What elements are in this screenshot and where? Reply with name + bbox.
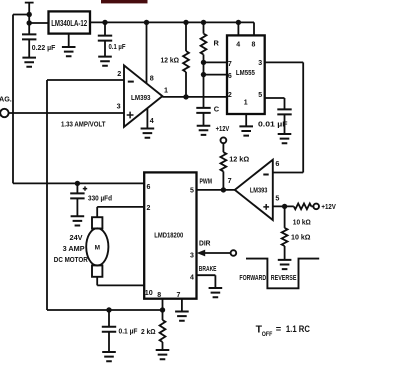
- resistor 10k to +12V: [294, 204, 312, 210]
- svg-text:0.1 µF: 0.1 µF: [119, 328, 139, 335]
- svg-text:3: 3: [117, 102, 121, 111]
- svg-text:2: 2: [228, 92, 232, 99]
- svg-text:1.1 RC: 1.1 RC: [286, 324, 310, 334]
- svg-text:4: 4: [150, 116, 154, 125]
- svg-text:2: 2: [147, 205, 151, 212]
- svg-text:2 kΩ: 2 kΩ: [141, 329, 156, 336]
- svg-text:BRAKE: BRAKE: [199, 264, 217, 273]
- svg-text:1.33 AMP/VOLT: 1.33 AMP/VOLT: [61, 119, 106, 128]
- wire motor to LMD pin 10: [97, 277, 144, 286]
- svg-text:8: 8: [252, 42, 256, 49]
- wire 555 pin 5 to bypass cap: [265, 98, 285, 109]
- wire DIR input with arrow: [203, 252, 231, 254]
- svg-text:330 µFd: 330 µFd: [88, 195, 112, 202]
- wire 555 pin 3 output loop to comparator pin 6: [265, 62, 303, 172]
- svg-text:LM393: LM393: [131, 95, 151, 102]
- capacitor 0.1uF rail bypass: [104, 22, 106, 35]
- wire comparator output to LMD pin 5: [197, 189, 235, 191]
- wire +24V terminal down to input node: [28, 3, 30, 35]
- node feedback at 0.1uF: [106, 307, 111, 312]
- wire to 555 pin 6: [204, 74, 228, 76]
- svg-text:1: 1: [164, 86, 168, 95]
- wire LM393 pin 8 supply drop: [146, 22, 148, 83]
- svg-text:8: 8: [157, 292, 161, 299]
- wire pin 3 non-inverting input: [9, 112, 124, 114]
- timer U3 LM555: [227, 35, 265, 114]
- svg-text:0.1 µF: 0.1 µF: [109, 42, 126, 51]
- node sense at pin 8: [160, 307, 165, 312]
- svg-text:7: 7: [228, 176, 232, 185]
- motor M1 body: [86, 228, 108, 265]
- svg-text:0.22 µF: 0.22 µF: [32, 43, 56, 52]
- ground under 555 pin 1: [239, 126, 253, 135]
- ground under regulator: [68, 34, 70, 47]
- resistor 10k to ground: [284, 206, 286, 228]
- wire BRAKE pin 4 to ground: [197, 275, 216, 288]
- node rail at 555 pin4: [236, 20, 241, 25]
- ground under 2k: [156, 350, 170, 359]
- node DIR terminal: [231, 250, 237, 256]
- wire LMD pin 8 to sense node: [162, 299, 164, 310]
- ground under pin 7: [175, 312, 189, 321]
- svg-text:4: 4: [236, 42, 240, 49]
- svg-text:24V: 24V: [70, 233, 83, 242]
- svg-text:12 kΩ: 12 kΩ: [161, 56, 180, 65]
- ground under feedback 0.1uF: [102, 352, 116, 361]
- capacitor 330uFd electrolytic: [76, 183, 78, 193]
- regulator U1 LM340LA-12: [49, 11, 91, 33]
- wire pin 4 to ground: [146, 108, 148, 128]
- resistor 12k pull-up (left): [185, 22, 187, 51]
- svg-text:2: 2: [117, 69, 121, 78]
- svg-text:=: =: [276, 324, 282, 334]
- svg-text:LM393: LM393: [250, 188, 268, 195]
- wire motor to LMD pin 2: [97, 207, 144, 217]
- svg-text:FORWARD: FORWARD: [239, 273, 266, 282]
- minus input symbol: [263, 174, 268, 176]
- svg-text:3: 3: [190, 253, 194, 260]
- node rail at 0.1uF: [102, 20, 107, 25]
- plus input symbol: [263, 204, 269, 210]
- ground under C: [197, 126, 211, 135]
- capacitor 0.01uF control bypass: [277, 109, 291, 114]
- resistor 2k sense: [162, 310, 164, 320]
- node divider junction: [282, 204, 287, 209]
- ground under 10k: [278, 260, 292, 269]
- waveform forward/reverse illustration: [246, 259, 319, 289]
- svg-text:7: 7: [177, 292, 181, 299]
- op-amp U4 LM393 PWM comparator: [235, 160, 273, 220]
- svg-text:5: 5: [275, 193, 279, 202]
- svg-text:+12V: +12V: [216, 126, 230, 133]
- wire left 24V rail vertical: [12, 15, 14, 184]
- svg-text:OFF: OFF: [262, 331, 273, 338]
- wire input node to left rail: [13, 14, 29, 16]
- resistor R timing: [203, 22, 205, 33]
- ground under 0.22uF: [22, 58, 36, 67]
- wire 555 pin 4 drop: [237, 22, 239, 34]
- svg-text:C: C: [214, 104, 220, 113]
- wire motor supply line: [13, 182, 145, 184]
- node +12V terminal right: [313, 204, 319, 210]
- ground under 330uF: [71, 216, 85, 225]
- node motor supply at 330uF: [75, 181, 80, 186]
- svg-text:PWM: PWM: [200, 176, 213, 185]
- plus input symbol: [127, 112, 134, 119]
- svg-text:10 kΩ: 10 kΩ: [293, 217, 311, 226]
- svg-text:5: 5: [190, 188, 194, 195]
- svg-text:R: R: [214, 39, 220, 48]
- svg-text:3: 3: [258, 60, 262, 67]
- motor M1 top brush: [92, 217, 102, 228]
- wire +12V rail: [90, 22, 254, 34]
- ground at BRAKE: [209, 288, 223, 297]
- svg-text:LM340LA-12: LM340LA-12: [51, 18, 87, 28]
- node input junction upper: [27, 12, 32, 17]
- node output / 12k junction: [183, 94, 188, 99]
- svg-text:REVERSE: REVERSE: [271, 273, 297, 282]
- svg-text:DIR: DIR: [199, 238, 211, 247]
- node rail at 12k: [183, 20, 188, 25]
- node MAG input terminal: [0, 109, 8, 117]
- svg-text:12 kΩ: 12 kΩ: [229, 155, 249, 164]
- svg-text:3 AMP: 3 AMP: [63, 244, 85, 253]
- svg-text:M: M: [95, 245, 100, 252]
- svg-text:6: 6: [228, 73, 232, 80]
- op-amp U2 LM393 current comparator: [124, 65, 162, 127]
- svg-text:6: 6: [275, 159, 279, 168]
- svg-text:10 kΩ: 10 kΩ: [291, 232, 311, 241]
- svg-text:LMD18200: LMD18200: [154, 231, 183, 240]
- ground under 0.1uF: [98, 57, 112, 66]
- wire LMD pin 7 to ground: [181, 299, 183, 312]
- capacitor 0.22uF input filter: [22, 34, 36, 39]
- capacitor 0.1uF feedback filter: [108, 310, 110, 327]
- node rail at pin8 drop: [144, 20, 149, 25]
- ground under 0.01uF: [278, 134, 292, 143]
- wire pin 2 inverting input: [47, 79, 124, 81]
- browser selection highlight remnant (dark red bar): [101, 0, 148, 3]
- wire 555 pin 1 to ground: [245, 114, 247, 126]
- node +24V input terminal tick: [25, 2, 34, 4]
- svg-text:8: 8: [150, 74, 154, 83]
- svg-text:0.01 µF: 0.01 µF: [258, 119, 288, 128]
- H-bridge U5 LMD18200: [144, 172, 196, 298]
- svg-text:7: 7: [228, 61, 232, 68]
- svg-text:DC MOTOR: DC MOTOR: [54, 255, 89, 264]
- svg-text:5: 5: [258, 92, 262, 99]
- resistor 12k PWM pull-up: [222, 143, 224, 152]
- svg-text:1: 1: [244, 100, 248, 107]
- wire to 555 pin 7: [204, 61, 228, 63]
- minus input symbol: [128, 81, 134, 83]
- svg-text:+12V: +12V: [321, 204, 336, 211]
- svg-text:AG.: AG.: [0, 95, 12, 104]
- wire current feedback from sense node to pin 2: [47, 80, 163, 310]
- motor M1 bottom brush: [92, 265, 102, 276]
- wire LM393 output to 555 trigger: [162, 96, 227, 98]
- svg-text:6: 6: [147, 184, 151, 191]
- ground under LM393 pin 4: [141, 129, 155, 138]
- wire RC column down to C: [203, 62, 205, 108]
- node R to pin 6: [201, 72, 206, 77]
- svg-text:LM555: LM555: [236, 70, 255, 77]
- node PWM junction: [221, 187, 226, 192]
- wire input node to regulator: [29, 22, 48, 24]
- node input junction lower: [27, 20, 32, 25]
- svg-text:4: 4: [190, 275, 194, 282]
- node R to pin 7: [201, 60, 206, 65]
- capacitor C timing: [196, 108, 210, 113]
- node rail at R: [201, 20, 206, 25]
- svg-text:10: 10: [145, 290, 153, 297]
- wire pin 5 input: [273, 205, 294, 207]
